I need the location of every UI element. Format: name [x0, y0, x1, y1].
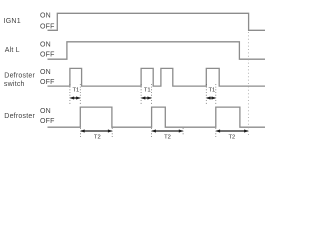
wire Defroster switch waveform [48, 68, 266, 86]
svg-text:T1: T1 [144, 88, 151, 94]
T2 marker group 1 dotted lines [80, 128, 112, 139]
node IGN1-off time dotted line [247, 32, 249, 135]
svg-text:ON: ON [40, 41, 51, 48]
svg-text:OFF: OFF [40, 79, 55, 86]
T1 group 3 arrow [206, 96, 216, 99]
svg-text:switch: switch [4, 81, 25, 88]
wire Alt L waveform [48, 42, 266, 59]
svg-text:ON: ON [40, 13, 51, 20]
svg-text:T2: T2 [94, 134, 101, 140]
T1 marker group 2 dotted lines [141, 84, 152, 106]
T2 marker group 3 dotted lines [215, 128, 217, 139]
svg-text:T2: T2 [164, 134, 171, 140]
T2 marker group 2 dotted lines [152, 128, 184, 139]
T1 group 1 arrow [70, 96, 80, 99]
svg-text:T1: T1 [209, 88, 216, 94]
svg-text:Alt L: Alt L [5, 47, 20, 54]
T2 group 3 arrow [216, 129, 249, 132]
svg-text:T1: T1 [73, 88, 80, 94]
svg-text:ON: ON [40, 69, 51, 76]
T1 marker group 1 dotted lines [70, 84, 80, 106]
wire Defroster waveform [48, 107, 266, 127]
wire IGN1 waveform [48, 13, 266, 30]
T1 group 2 arrow [141, 96, 152, 99]
svg-text:Defroster: Defroster [4, 113, 35, 120]
svg-text:Defroster: Defroster [4, 73, 35, 80]
svg-text:IGN1: IGN1 [4, 18, 21, 25]
svg-text:OFF: OFF [40, 23, 55, 30]
T2 group 1 arrow [80, 129, 112, 132]
svg-text:OFF: OFF [40, 118, 55, 125]
svg-text:OFF: OFF [40, 51, 55, 58]
T2 group 2 arrow [152, 129, 184, 132]
T1 marker group 3 dotted lines [206, 84, 216, 106]
svg-text:ON: ON [40, 108, 51, 115]
svg-text:T2: T2 [229, 134, 236, 140]
